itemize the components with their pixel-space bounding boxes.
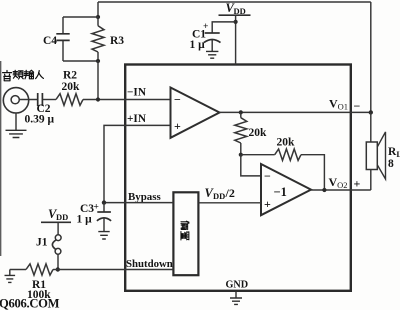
node divider junction: [239, 153, 243, 157]
resistor R1: [10, 269, 26, 271]
wire (scan edge artifact): [0, 61, 2, 256]
wire top feedback rail: [98, 2, 371, 112]
node C4/R3 bottom junction: [96, 59, 100, 63]
ground (GND pin): [235, 292, 237, 298]
wire junction to -IN node: [97, 61, 99, 100]
svg-text:0.39 μ: 0.39 μ: [25, 113, 55, 125]
svg-text:−: −: [354, 99, 361, 113]
ground (C3): [98, 232, 109, 239]
wire R2 to -IN: [83, 99, 170, 101]
wire speaker to VO2: [370, 170, 372, 191]
svg-text:R3: R3: [110, 35, 124, 47]
node VO1 at speaker: [369, 110, 373, 114]
op-amp IC outline box: [125, 65, 351, 291]
ground (audio input): [15, 113, 17, 130]
op-amp U2 (gain -1): [261, 164, 311, 215]
svg-text:VO2: VO2: [329, 175, 348, 190]
capacitor C2: [38, 93, 43, 106]
bias block 偏置: [173, 192, 198, 275]
svg-text:−: −: [264, 169, 271, 183]
node feedback junction top: [96, 15, 100, 19]
wire VDD/2 to U2 + input: [198, 202, 261, 204]
wire VDD to IC: [235, 15, 237, 64]
svg-text:C4: C4: [43, 35, 57, 47]
speaker RL: [366, 142, 377, 170]
svg-text:20k: 20k: [249, 127, 268, 139]
node VO2 feedback junction: [322, 188, 326, 192]
wire C4/R3 bottom rail: [63, 60, 98, 62]
svg-text:−IN: −IN: [127, 86, 147, 98]
svg-text:+: +: [264, 197, 271, 211]
svg-text:J1: J1: [36, 236, 48, 248]
svg-text:1 μ: 1 μ: [190, 39, 206, 51]
jumper J1: [57, 222, 59, 235]
wire U2 output VO2: [311, 189, 371, 191]
svg-text:Q606.COM: Q606.COM: [0, 297, 60, 310]
resistor R2: [56, 94, 83, 106]
svg-text:RL: RL: [388, 146, 400, 159]
capacitor C3: [103, 203, 105, 212]
svg-text:+: +: [94, 203, 99, 213]
wire J1 to shutdown node: [57, 254, 59, 269]
svg-text:GND: GND: [226, 280, 249, 291]
wire C2 to R2: [42, 99, 56, 101]
node VO1 at 20k: [239, 110, 243, 114]
node bypass junction: [102, 200, 106, 204]
svg-text:/2: /2: [225, 186, 235, 200]
svg-text:20k: 20k: [62, 81, 81, 93]
wire bypass: [104, 202, 173, 204]
capacitor C4: [62, 17, 64, 61]
svg-text:−: −: [174, 92, 181, 106]
svg-text:DD: DD: [213, 191, 225, 201]
wire VO1 to speaker: [370, 112, 372, 142]
audio input label 音频输入: [3, 70, 44, 81]
op-amp U1: [171, 88, 220, 138]
svg-text:−1: −1: [274, 185, 287, 199]
audio input connector J: [3, 88, 28, 113]
svg-text:R2: R2: [63, 70, 77, 82]
svg-text:Shutdown: Shutdown: [126, 258, 173, 270]
svg-text:8: 8: [388, 158, 394, 170]
svg-text:20k: 20k: [277, 137, 296, 149]
capacitor C1: [212, 22, 235, 33]
ground (C1): [206, 51, 218, 58]
svg-text:Bypass: Bypass: [128, 191, 161, 203]
wire U1 output VO1: [220, 111, 371, 113]
svg-text:DD: DD: [56, 212, 68, 222]
svg-text:1 μ: 1 μ: [77, 214, 93, 226]
wire C4/R3 top rail: [63, 16, 98, 18]
resistor 20k (feedback divider): [240, 112, 242, 154]
wire to U2 inverting input: [241, 155, 261, 176]
wire +IN to bypass node: [104, 125, 170, 202]
resistor R3: [92, 26, 104, 52]
ground (R1): [9, 270, 11, 276]
resistor 20k (inverter input): [241, 155, 325, 190]
svg-text:+IN: +IN: [127, 113, 147, 125]
node shutdown junction: [56, 267, 60, 271]
svg-text:VO1: VO1: [329, 96, 348, 111]
wire connector to C2: [19, 99, 37, 101]
node -IN input junction: [96, 97, 100, 101]
svg-text:+: +: [174, 119, 181, 133]
svg-text:+: +: [354, 177, 361, 191]
wire shutdown: [58, 269, 174, 271]
node VDD junction: [234, 20, 238, 24]
